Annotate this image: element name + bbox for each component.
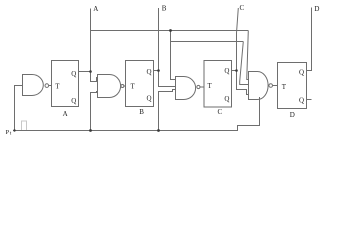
svg-text:A: A: [63, 110, 68, 118]
svg-text:Q: Q: [224, 67, 229, 75]
svg-text:Q: Q: [299, 97, 304, 105]
svg-text:Q: Q: [147, 95, 152, 103]
svg-text:C: C: [240, 4, 245, 12]
svg-text:B: B: [162, 4, 167, 12]
svg-text:B: B: [139, 108, 144, 116]
svg-text:Q: Q: [71, 97, 76, 105]
svg-text:D: D: [290, 111, 295, 119]
svg-text:T: T: [282, 83, 287, 91]
svg-text:Q: Q: [147, 68, 152, 76]
svg-text:T: T: [55, 82, 60, 90]
svg-text:t: t: [10, 131, 12, 137]
svg-text:A: A: [93, 5, 98, 13]
svg-text:D: D: [314, 5, 319, 13]
svg-text:T: T: [208, 82, 213, 90]
svg-text:Q: Q: [71, 70, 76, 78]
svg-text:T: T: [131, 83, 136, 91]
svg-text:C: C: [218, 108, 223, 116]
svg-text:Q: Q: [299, 69, 304, 77]
svg-text:Q: Q: [224, 95, 229, 103]
